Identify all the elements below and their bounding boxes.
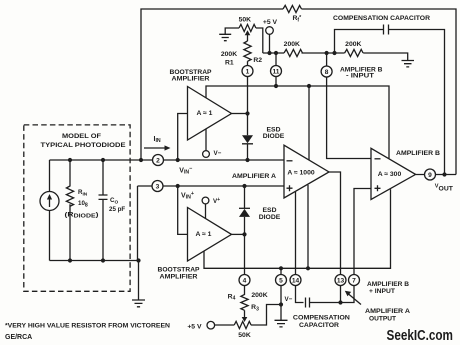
resistor Rf* bbox=[283, 5, 302, 12]
potentiometer 50K bottom bbox=[215, 321, 251, 328]
svg-text:A ≈ 1000: A ≈ 1000 bbox=[287, 170, 315, 177]
svg-text:11: 11 bbox=[273, 68, 280, 75]
svg-text:AMPLIFIER B: AMPLIFIER B bbox=[367, 281, 409, 288]
terminal V+ bootstrap2 bbox=[202, 197, 209, 204]
capacitor compensation top bbox=[384, 25, 389, 35]
wire bootstrap2 input bbox=[178, 186, 188, 234]
junction CO top bbox=[101, 158, 105, 162]
wire amp B + input to pin 7 bbox=[341, 189, 372, 303]
junction bootstrap2 output node bbox=[242, 232, 246, 236]
resistor R3/R4 vertical 200K bbox=[241, 286, 248, 311]
svg-text:200K: 200K bbox=[284, 41, 300, 48]
junction pin11/rail bbox=[274, 51, 278, 55]
node pin 9 bbox=[425, 169, 436, 180]
ground (right of 200K) bbox=[402, 61, 415, 67]
wire pin5 riser bbox=[280, 268, 282, 304]
wire photodiode bottom rail bbox=[50, 261, 139, 300]
svg-text:9: 9 bbox=[428, 172, 432, 179]
svg-text:25 pF: 25 pF bbox=[109, 206, 125, 213]
junction pin11/bias bus bbox=[274, 84, 278, 88]
svg-text:V−: V− bbox=[285, 296, 293, 303]
ESD diode D1 bbox=[247, 114, 249, 136]
wire bootstrap2 output bbox=[232, 233, 245, 235]
node pin 3 bbox=[152, 181, 163, 192]
resistor 200K (right, to ground) bbox=[345, 49, 364, 56]
junction +5V/rail bbox=[267, 51, 271, 55]
svg-text:AMPLIFIER: AMPLIFIER bbox=[160, 274, 198, 281]
svg-text:50K: 50K bbox=[238, 332, 251, 339]
capacitor CO bbox=[99, 160, 108, 261]
svg-text:1: 1 bbox=[246, 68, 250, 75]
node pin 4 bbox=[239, 275, 250, 286]
arrow amplifier A output pointer bbox=[349, 294, 362, 305]
wire +5V down bbox=[269, 34, 271, 53]
junction feedback/VIN- bbox=[139, 158, 143, 162]
wire bootstrap2 bottom bias riser + bottom bus bbox=[204, 189, 391, 268]
ground (pot top) bbox=[219, 34, 231, 40]
wire bootstrap1 output bbox=[232, 113, 248, 115]
terminal +5V bottom bbox=[207, 321, 215, 329]
wire pot right lead down to rail bbox=[256, 28, 263, 53]
wire pin1 vertical bbox=[247, 66, 249, 114]
svg-text:8: 8 bbox=[325, 69, 329, 76]
junction RIN bottom bbox=[68, 258, 72, 262]
junction V- ground node bbox=[279, 302, 283, 306]
node pin 7 bbox=[349, 275, 360, 286]
ground under pin 5 bbox=[275, 305, 288, 327]
junction CO bottom bbox=[101, 258, 105, 262]
capacitor compensation bottom bbox=[306, 298, 310, 308]
op-amp amplifier A bbox=[284, 145, 329, 198]
wire pin11 vertical bbox=[275, 53, 277, 86]
svg-text:4: 4 bbox=[243, 277, 247, 284]
ground photodiode bbox=[132, 300, 145, 307]
node pin 1 bbox=[242, 66, 253, 77]
svg-text:+ INPUT: + INPUT bbox=[369, 288, 396, 295]
junction comp-cap riser/rail bbox=[332, 51, 336, 55]
svg-text:50K: 50K bbox=[239, 16, 252, 23]
op-amp bootstrap amplifier 2 bbox=[188, 208, 232, 262]
node pin 11 bbox=[271, 66, 282, 77]
svg-text:(RDIODE): (RDIODE) bbox=[65, 212, 99, 220]
junction ESD1/VIN- bbox=[245, 158, 249, 162]
wire top bias bus y86 bbox=[206, 86, 389, 158]
wire amp A output to pin 13 bbox=[329, 172, 341, 303]
wire bootstrap1 input bbox=[178, 114, 188, 161]
svg-text:A ≈ 300: A ≈ 300 bbox=[378, 171, 402, 178]
svg-text:AMPLIFIER B: AMPLIFIER B bbox=[396, 150, 440, 157]
dashed box model of photodiode bbox=[24, 125, 130, 291]
junction photodiode ground node bbox=[136, 258, 140, 262]
svg-text:3: 3 bbox=[156, 183, 160, 190]
svg-text:200K: 200K bbox=[221, 51, 237, 58]
junction pin13/comp-cap line bbox=[338, 300, 342, 304]
wiper bottom pot bbox=[244, 310, 246, 317]
op-amp bootstrap amplifier 1 bbox=[188, 87, 232, 141]
junction bootstrap1 output node bbox=[245, 111, 249, 115]
wire amp A bottom slope riser bbox=[307, 185, 309, 268]
svg-text:R1: R1 bbox=[225, 59, 234, 66]
svg-text:2: 2 bbox=[156, 157, 160, 164]
svg-text:5: 5 bbox=[279, 277, 283, 284]
svg-text:200K: 200K bbox=[251, 292, 267, 299]
junction ampA-top riser/bias bus bbox=[307, 84, 311, 88]
wire pin14 line (amp A slope to pin, to comp cap) bbox=[296, 192, 304, 303]
terminal V- bootstrap1 bbox=[205, 129, 207, 151]
svg-text:IIN: IIN bbox=[154, 136, 161, 144]
wire pin4 vertical bbox=[244, 234, 246, 274]
svg-text:13: 13 bbox=[337, 277, 345, 284]
junction bootstrap1 input/VIN- bbox=[176, 158, 180, 162]
current source photodiode bbox=[49, 160, 51, 261]
junction pin5/bottom bus bbox=[279, 266, 283, 270]
wiper of pot bbox=[247, 34, 249, 42]
wire pin8 vertical and amp B minus input bbox=[327, 53, 371, 159]
ESD diode D2 bbox=[244, 186, 246, 208]
svg-text:COMPENSATION CAPACITOR: COMPENSATION CAPACITOR bbox=[333, 15, 430, 22]
junction RIN top bbox=[68, 158, 72, 162]
svg-text:+5 V: +5 V bbox=[263, 19, 278, 26]
wire VIN+ line bbox=[138, 186, 285, 261]
svg-text:+5 V: +5 V bbox=[187, 323, 202, 330]
junction bootstrap2 input/VIN+ bbox=[176, 184, 180, 188]
svg-text:200K: 200K bbox=[345, 41, 361, 48]
svg-text:CAPACITOR: CAPACITOR bbox=[299, 322, 339, 329]
svg-text:GE/RCA: GE/RCA bbox=[5, 334, 32, 341]
svg-text:AMPLIFIER: AMPLIFIER bbox=[172, 75, 210, 82]
svg-text:A ≈ 1: A ≈ 1 bbox=[196, 231, 212, 238]
svg-text:AMPLIFIER A: AMPLIFIER A bbox=[365, 308, 410, 315]
svg-text:AMPLIFIER A: AMPLIFIER A bbox=[232, 173, 276, 180]
node pin 5 bbox=[276, 275, 287, 286]
junction pin8/rail bbox=[325, 51, 329, 55]
svg-text:- INPUT: - INPUT bbox=[346, 72, 375, 79]
+5V supply top bbox=[266, 27, 274, 35]
svg-text:COMPENSATION: COMPENSATION bbox=[293, 315, 350, 322]
op-amp amplifier B bbox=[371, 148, 416, 199]
svg-text:DIODE: DIODE bbox=[263, 133, 285, 140]
node pin 2 bbox=[153, 155, 164, 166]
wire pot right to V- node bbox=[251, 305, 281, 326]
svg-text:A ≈ 1: A ≈ 1 bbox=[197, 110, 213, 117]
node pin 13 bbox=[335, 275, 346, 286]
svg-text:VOUT: VOUT bbox=[435, 184, 454, 193]
wire output to VOUT bbox=[416, 174, 456, 176]
svg-text:DIODE: DIODE bbox=[259, 214, 281, 221]
svg-text:SeekIC.com: SeekIC.com bbox=[387, 328, 454, 344]
resistor RIN bbox=[66, 160, 73, 261]
svg-text:7: 7 bbox=[352, 277, 356, 284]
svg-text:OUTPUT: OUTPUT bbox=[369, 315, 397, 322]
resistor 200K (left, to pin 11 node) bbox=[284, 49, 303, 56]
junction ESD2/VIN+ bbox=[242, 184, 246, 188]
svg-text:14: 14 bbox=[292, 277, 300, 284]
junction output node bbox=[442, 172, 446, 176]
svg-text:BOOTSTRAP: BOOTSTRAP bbox=[158, 267, 200, 274]
node pin 8 bbox=[321, 66, 332, 77]
svg-text:TYPICAL PHOTODIODE: TYPICAL PHOTODIODE bbox=[41, 142, 127, 149]
wire drop to amp A top slope bbox=[308, 86, 310, 160]
svg-text:ESD: ESD bbox=[263, 207, 277, 214]
svg-text:MODEL OF: MODEL OF bbox=[62, 133, 101, 140]
svg-text:*VERY HIGH VALUE RESISTOR FROM: *VERY HIGH VALUE RESISTOR FROM VICTOREEN bbox=[5, 323, 170, 330]
junction ampA-bottom riser/bottom bus bbox=[306, 266, 310, 270]
resistor R2 200K vertical bbox=[244, 41, 251, 66]
svg-text:R2: R2 bbox=[253, 57, 262, 64]
wire outer feedback loop top/left/right bbox=[141, 9, 456, 175]
wire VIN- line bbox=[50, 159, 285, 161]
wire compensation loop top bbox=[335, 30, 445, 175]
node pin 14 bbox=[290, 275, 301, 286]
svg-text:V−: V− bbox=[214, 150, 222, 157]
potentiometer 50K top bbox=[225, 24, 256, 34]
wire top rail y53 bbox=[263, 53, 408, 60]
